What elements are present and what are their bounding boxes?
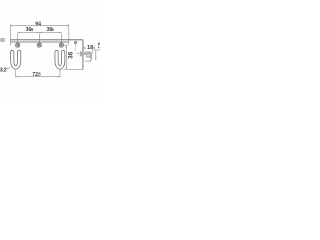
small rectangle left end xyxy=(1,39,4,41)
dim 36 line xyxy=(18,32,62,45)
rail top line xyxy=(11,39,83,41)
screw circle middle xyxy=(37,43,41,47)
dim 36 right comma xyxy=(50,29,53,32)
rail bottom line xyxy=(11,41,69,43)
svg-text:5: 5 xyxy=(38,72,41,77)
dim 36 left comma xyxy=(29,29,32,32)
svg-text:3.2: 3.2 xyxy=(0,68,7,74)
hook right xyxy=(55,50,65,69)
dim 18 extension lines xyxy=(83,46,92,53)
bottom extension line to side view xyxy=(63,68,83,70)
dim 94 arrows xyxy=(11,25,69,26)
screw circle left xyxy=(16,43,20,47)
side view: plate vertical xyxy=(82,40,84,70)
dim 94 line xyxy=(11,24,69,45)
dim 18 arrows xyxy=(84,47,93,48)
svg-text:5: 5 xyxy=(51,27,54,32)
dim 72 arrows xyxy=(16,76,60,77)
side view: rail section stub xyxy=(75,42,77,44)
dim 72 comma xyxy=(37,74,40,77)
clipped dimension right edge xyxy=(95,46,100,60)
clipped text right edge xyxy=(99,43,101,48)
dim 3.2 leader xyxy=(6,67,11,69)
dim 36 arrows xyxy=(18,32,62,33)
svg-text:94: 94 xyxy=(35,21,41,27)
side view: hook profile xyxy=(77,52,91,61)
side view: wire front xyxy=(80,52,81,57)
svg-text:5: 5 xyxy=(31,27,34,32)
side view: wire down from stub xyxy=(75,44,77,52)
hook left xyxy=(11,50,21,69)
dim vertical 36 line xyxy=(64,45,68,69)
svg-text:36: 36 xyxy=(68,51,75,58)
screw circle right xyxy=(59,43,63,47)
dim 72 line xyxy=(16,70,60,77)
dim vertical 36 arrows xyxy=(66,45,67,69)
